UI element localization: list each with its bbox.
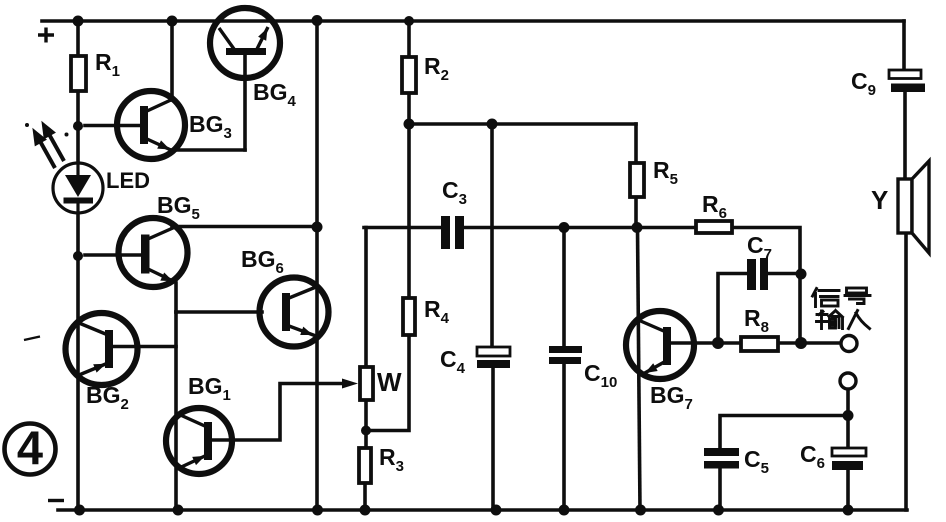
wire R2 top lead <box>407 21 411 57</box>
wire R6 right to C7 corner riser <box>732 228 800 275</box>
potentiometer W wiper arrowhead <box>342 379 358 389</box>
wire C10 riser <box>562 228 566 347</box>
transistor BG7 <box>626 311 694 379</box>
capacitor C10 plates <box>549 346 582 364</box>
wire R1 top lead <box>76 21 80 56</box>
wire C9 to speaker <box>903 92 907 180</box>
wire C3 rail right segment to R6 <box>464 226 696 230</box>
wire x638 down through BG7 to ground <box>638 228 641 511</box>
wire C6 top lead <box>846 416 850 449</box>
wire left riser x176 down through BG1 to ground <box>174 312 178 510</box>
transistor BG1 <box>166 408 232 474</box>
wire R5 top lead <box>634 124 638 163</box>
wire W bottom lead to R3 <box>364 400 368 448</box>
wire mid rail y124 R2 to R5 <box>409 122 636 126</box>
wire BG5 emitter down to BG6 base line <box>174 283 178 312</box>
wire C7 right plate to node <box>768 274 800 344</box>
LED light rays <box>35 126 64 169</box>
svg-text:Y: Y <box>871 185 888 215</box>
scan speck dash left of BG2 <box>24 337 40 341</box>
plus terminal <box>38 28 54 43</box>
wire node to LED anode <box>76 126 80 164</box>
wire BG3 emitter to BG4 base <box>172 148 245 152</box>
wire R5 bottom lead <box>634 197 638 228</box>
resistor R6 <box>696 221 732 233</box>
wire W top lead up to C3 rail <box>364 228 368 368</box>
capacitor C5 plates <box>704 448 739 469</box>
minus terminal <box>48 499 64 502</box>
input terminal lower <box>840 373 856 389</box>
wire lower-right horizontal to C5 <box>720 416 848 449</box>
wire lower input terminal down <box>846 390 850 416</box>
potentiometer W body <box>360 367 373 400</box>
label shuru (input) hand-drawn hanzi <box>817 311 870 329</box>
wire C5 bottom to ground <box>718 468 722 510</box>
transistor BG2 <box>66 313 138 385</box>
wire top supply rail <box>42 19 904 23</box>
capacitor C9 plates <box>889 70 925 92</box>
scan speck near base node <box>25 123 29 127</box>
wire C10 to ground <box>562 364 566 510</box>
svg-text:4: 4 <box>17 421 43 474</box>
wire R8 left lead <box>718 341 741 345</box>
wire left column through BG2 to ground <box>76 256 80 510</box>
wire right rail from top corner down to C9 <box>902 21 906 70</box>
wire LED cathode down to BG5 node <box>76 212 80 256</box>
wire BG2 base lead <box>112 345 176 349</box>
wire x409 down to R4 <box>407 124 411 298</box>
circled figure number 4 <box>5 421 56 475</box>
resistor R2 <box>402 57 416 93</box>
resistor R4 <box>403 298 415 335</box>
wire R2 bottom lead <box>407 93 411 124</box>
capacitor C3 plates <box>441 216 464 249</box>
scan speck near LED <box>65 133 69 137</box>
capacitor C6 plates <box>832 448 866 470</box>
wire C4 to ground <box>491 368 495 510</box>
resistor R5 <box>630 163 644 197</box>
wire C3 rail left segment <box>364 226 441 230</box>
transistor BG4 <box>210 8 280 78</box>
wire main center riser x317 top to ground <box>315 21 319 510</box>
svg-text:W: W <box>377 367 402 397</box>
resistor R8 <box>741 337 778 351</box>
input terminal upper <box>841 336 857 352</box>
wire R4 bottom to W bottom node <box>366 335 409 431</box>
transistor BG3 <box>117 91 185 159</box>
wire speaker to bottom rail <box>904 232 908 510</box>
transistor BG6 <box>260 278 329 347</box>
capacitor C4 plates <box>477 347 510 368</box>
wire R3 bottom lead to ground <box>363 483 367 510</box>
wire C7 parallel branch <box>718 274 747 344</box>
resistor R1 <box>71 56 86 91</box>
wire BG3 collector riser to top rail <box>170 21 174 100</box>
wire C4 riser top <box>490 124 494 347</box>
wire C6 bottom to ground <box>846 470 850 510</box>
wire BG6 base lead <box>176 310 262 314</box>
wire BG4 base lead <box>243 54 247 150</box>
transistor BG5 <box>119 218 188 287</box>
wire R1 bottom lead to node <box>76 91 80 126</box>
capacitor C7 plates <box>747 258 768 290</box>
LED <box>53 163 103 213</box>
wire R8 node to input terminal <box>801 341 841 345</box>
wire BG1 base to W wiper arrow <box>212 384 344 441</box>
speaker Y <box>898 161 929 253</box>
svg-text:LED: LED <box>106 168 150 193</box>
wire BG3 base lead <box>85 124 141 128</box>
wire R8 right lead <box>778 341 801 345</box>
wire BG5 collector to center riser <box>172 225 317 229</box>
resistor R3 <box>359 448 371 483</box>
label xinhao (signal) hand-drawn hanzi <box>813 288 871 307</box>
wire BG7 base lead <box>671 341 718 345</box>
wire BG5 base lead <box>85 253 143 257</box>
wire bottom ground rail <box>58 508 907 512</box>
